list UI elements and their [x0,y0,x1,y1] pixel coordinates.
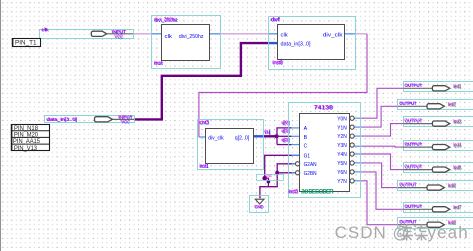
svg-text:PIN_N18: PIN_N18 [14,126,39,132]
output pin led1 selection box [404,82,473,92]
output pin led7 symbol [432,207,449,212]
wire Y3N to led4 [354,145,360,147]
svg-text:Y4N: Y4N [337,152,347,158]
bubble Y5N [350,161,354,165]
svg-text:PIN_M20: PIN_M20 [14,133,39,139]
svg-text:OUTPUT: OUTPUT [404,82,421,88]
svg-text:led3: led3 [453,119,461,125]
svg-text:led2: led2 [448,102,456,108]
bubble Y1N [350,125,354,129]
svg-text:cnt3: cnt3 [199,120,209,126]
svg-text:OUTPUT: OUTPUT [404,141,421,147]
wire G2AN to gnd net [277,164,295,173]
output pin led3 symbol [432,121,449,126]
input pin clk (PIN_T1) selection box [40,30,134,39]
svg-text:inst3: inst3 [288,189,298,195]
output pin led2 symbol [427,104,444,109]
svg-text:GND: GND [266,174,272,178]
svg-text:led1: led1 [453,84,461,90]
output pin led6 lead wire [398,187,427,189]
wire Y1N to led2 [354,126,360,128]
svg-text:inst8: inst8 [272,60,282,66]
svg-text:OUTPUT: OUTPUT [404,164,421,170]
svg-text:G1: G1 [304,153,311,159]
bubble Y0N [350,116,354,120]
svg-text:clk: clk [41,27,49,33]
block divf selection box [269,17,356,70]
output pin led3 selection box [404,117,473,127]
svg-text:A: A [304,126,308,132]
svg-text:B: B [304,135,308,141]
svg-text:inst: inst [154,61,163,67]
bubble Y6N [350,170,354,174]
svg-text:Y0N: Y0N [337,116,347,122]
svg-text:div_clk: div_clk [208,136,224,142]
svg-text:3:8 DECODER: 3:8 DECODER [301,190,334,196]
svg-text:divi_250hz: divi_250hz [179,34,204,40]
output pin led8 symbol [427,222,444,227]
block divf body [278,25,345,60]
svg-text:74138: 74138 [314,105,333,111]
svg-text:inst1: inst1 [199,163,208,169]
block divi_250hz selection box [152,16,221,69]
output pin led4 selection box [404,141,473,151]
wire q[0] branch to A [277,128,292,145]
wire Y7N to led8 [354,180,360,182]
pin location table PIN_N18/M20/AA15/V13 [12,125,50,151]
ground triangle [255,199,264,204]
svg-text:q[1]: q[1] [281,128,289,134]
svg-text:Y7N: Y7N [337,179,347,185]
input pin clk symbol [91,31,106,36]
bubble Y7N [350,179,354,183]
junction jog [267,180,271,184]
svg-text:OUTPUT: OUTPUT [399,182,416,188]
input pin data_in symbol [95,117,113,122]
wire clk: divi_250hz output to divf clk [210,33,221,35]
svg-text:Y6N: Y6N [337,170,347,176]
svg-text:q[2..0]: q[2..0] [235,136,250,142]
svg-text:PIN_AA15: PIN_AA15 [13,139,41,145]
output pin led7 selection box [404,203,473,213]
wire Y0N to led1 [354,117,360,119]
svg-text:yeah: yeah [428,223,469,242]
svg-text:OUTPUT: OUTPUT [404,203,421,209]
selection box gnd wire cluster [257,175,284,181]
svg-text:divi_250hz: divi_250hz [154,17,178,23]
wire div_clk: divf output down and left to cnt3 [345,33,356,35]
block divi_250hz body [162,25,210,61]
output pin led1 lead wire [403,87,432,89]
input pin data_in lead wire [109,118,134,120]
svg-text:led4: led4 [453,143,461,149]
output pin led8 lead wire [398,224,427,226]
svg-text:VCC: VCC [121,119,130,125]
svg-text:PIN_T1: PIN_T1 [15,40,37,47]
bus data_in[3..0]: input pin to divf [134,43,269,119]
svg-text:Y3N: Y3N [337,143,347,149]
74138 selection box [289,103,361,198]
svg-text:G2BN: G2BN [304,171,317,177]
output pin led4 lead wire [403,146,432,148]
svg-text:OUTPUT: OUTPUT [399,100,416,106]
svg-text:G2AN: G2AN [304,162,317,168]
window border left edge [0,0,2,251]
svg-text:PIN_V13: PIN_V13 [14,146,38,152]
bubble Y4N [350,152,354,156]
wire Y6N to led7 [354,171,360,173]
74138 body U inst3 [300,114,350,192]
input pin data_in[3..0] selection box [45,116,135,123]
svg-text:Y5N: Y5N [337,161,347,167]
svg-text:data_in[3..0]: data_in[3..0] [281,42,311,48]
svg-text:clk: clk [281,32,289,38]
svg-text:Y1N: Y1N [337,125,347,131]
block cnt3 selection box [198,120,264,170]
output pin led7 lead wire [403,208,432,210]
svg-text:C: C [304,143,308,149]
bubble G2BN [296,171,300,175]
output pin led6 selection box [398,181,473,191]
bus q[2..0]: cnt3 output to breakout junction [254,135,263,137]
output pin led5 symbol [432,167,449,172]
output pin led6 symbol [427,185,444,190]
wire q[2] branch to C [277,144,292,146]
svg-text:q[2]: q[2] [281,137,289,143]
output pin led2 lead wire [398,105,427,107]
svg-text:led7: led7 [453,205,461,211]
output pin led8 selection box [398,218,473,229]
output pin led5 selection box [404,163,473,173]
wire Y4N to led5 [354,153,360,155]
ground symbol selection box [250,196,269,213]
svg-text:dvf: dvf [270,17,280,23]
svg-text:OUTPUT: OUTPUT [404,118,421,124]
svg-text:data_in[3..0]: data_in[3..0] [46,116,77,122]
output pin led3 lead wire [403,123,432,125]
bubble G2AN [296,162,300,166]
svg-text:div_clk: div_clk [323,32,343,38]
junction G2AN/G2BN [275,171,279,175]
PIN_T1 location box [13,39,41,47]
svg-text:VCC: VCC [114,34,123,40]
wire G1 to gnd net [265,155,300,178]
output pin led2 selection box [398,100,473,110]
svg-text:led5: led5 [453,165,461,171]
wire Y5N to led6 [354,162,360,164]
wire clk: input pin to divi_250hz [133,33,152,35]
svg-text:led6: led6 [448,183,456,189]
junction G1/gnd [262,176,267,181]
block cnt3 body [206,129,254,164]
svg-text:clk: clk [165,34,173,40]
bubble Y2N [350,134,354,138]
wire Y2N to led3 [354,135,360,137]
svg-text:Y2N: Y2N [337,134,347,140]
junction q bus [275,134,279,138]
svg-text:q[0]: q[0] [281,120,289,126]
output pin led4 symbol [432,145,449,150]
svg-text:0]: 0] [264,129,270,135]
svg-text:GND: GND [254,204,263,210]
output pin led5 lead wire [403,169,432,171]
input pin clk lead wire [104,33,133,35]
output pin led1 symbol [432,86,449,91]
wire G2BN to gnd net [277,172,295,174]
wire q[1] branch to B [277,135,292,137]
bubble Y3N [350,143,354,147]
wire gnd net down to GND symbol [260,173,277,198]
svg-text:CSDN @: CSDN @ [335,223,411,242]
